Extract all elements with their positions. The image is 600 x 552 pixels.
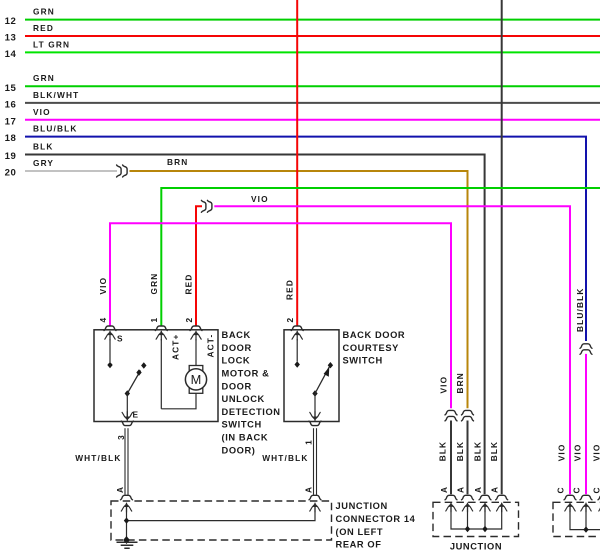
svg-text:GRN: GRN xyxy=(33,73,55,83)
svg-text:GRY: GRY xyxy=(33,158,54,168)
svg-text:JUNCTION: JUNCTION xyxy=(336,501,388,511)
svg-text:BLK/WHT: BLK/WHT xyxy=(33,90,79,100)
pin 4 xyxy=(98,317,124,362)
svg-text:(IN BACK: (IN BACK xyxy=(222,433,269,443)
svg-text:DOOR: DOOR xyxy=(222,343,252,353)
svg-text:BACK DOOR: BACK DOOR xyxy=(343,330,406,340)
pin A 1 xyxy=(439,486,457,512)
svg-text:C: C xyxy=(556,486,566,493)
svg-text:VIO: VIO xyxy=(573,444,583,462)
svg-text:14: 14 xyxy=(5,49,17,60)
ground xyxy=(117,542,138,548)
wire VIO from connector to pin C xyxy=(214,206,570,494)
svg-text:2: 2 xyxy=(285,317,295,323)
svg-text:WHT/BLK: WHT/BLK xyxy=(75,453,121,463)
pin 1 ACT+ xyxy=(149,317,181,409)
pin 3 E xyxy=(116,394,139,440)
pin C 1 xyxy=(556,486,577,512)
pin C 2 xyxy=(572,486,593,512)
inline connector RED-VIO xyxy=(201,194,268,212)
inline connector BRN-BLK xyxy=(455,372,474,421)
svg-text:BLK: BLK xyxy=(472,441,482,462)
wire WHT/BLK from pin 3 xyxy=(75,428,128,495)
svg-text:VIO: VIO xyxy=(98,277,108,295)
svg-text:MOTOR &: MOTOR & xyxy=(222,369,270,379)
svg-text:BLU/BLK: BLU/BLK xyxy=(33,124,77,134)
svg-text:BRN: BRN xyxy=(167,157,188,167)
svg-text:S: S xyxy=(117,334,124,344)
svg-text:17: 17 xyxy=(5,116,17,127)
wire BLK from top to junction xyxy=(501,0,503,494)
pin A 3 xyxy=(473,486,491,512)
wire BLK to junction pin A xyxy=(455,421,468,495)
svg-text:DOOR: DOOR xyxy=(222,381,252,391)
pin 2 xyxy=(285,317,303,368)
svg-text:BACK: BACK xyxy=(222,330,251,340)
pin A left xyxy=(115,486,133,512)
svg-text:RED: RED xyxy=(184,274,194,295)
svg-text:18: 18 xyxy=(5,133,17,144)
svg-text:20: 20 xyxy=(5,168,17,179)
wire 17 VIO xyxy=(5,107,600,128)
svg-text:12: 12 xyxy=(5,16,17,27)
svg-text:VIO: VIO xyxy=(251,194,269,204)
svg-text:SWITCH: SWITCH xyxy=(222,420,262,430)
svg-text:2: 2 xyxy=(184,317,194,323)
svg-text:E: E xyxy=(133,410,140,420)
svg-text:BLK: BLK xyxy=(438,441,448,462)
wire 18 BLU/BLK xyxy=(5,124,586,341)
svg-text:DETECTION: DETECTION xyxy=(222,407,281,417)
svg-text:RED: RED xyxy=(33,23,54,33)
svg-text:M: M xyxy=(191,372,202,387)
wire VIO to pin C xyxy=(585,354,587,494)
svg-text:4: 4 xyxy=(98,317,108,323)
svg-text:ACT+: ACT+ xyxy=(171,334,181,361)
wire 14 LT GRN xyxy=(5,39,600,60)
wire 15 GRN xyxy=(5,73,600,94)
svg-text:1: 1 xyxy=(304,439,314,445)
wire 16 BLK/WHT xyxy=(5,90,600,111)
svg-text:VIO: VIO xyxy=(592,444,600,462)
pin A 2 xyxy=(455,486,473,512)
svg-text:LT GRN: LT GRN xyxy=(33,39,70,49)
svg-text:A: A xyxy=(115,486,125,493)
svg-text:C: C xyxy=(572,486,582,493)
svg-text:LOCK: LOCK xyxy=(222,356,251,366)
svg-text:C: C xyxy=(591,486,600,493)
svg-text:COURTESY: COURTESY xyxy=(343,343,400,353)
pin 2 ACT- xyxy=(184,317,216,366)
inline connector VIO-BLK xyxy=(438,376,457,421)
wire 19 BLK xyxy=(5,142,485,495)
svg-text:A: A xyxy=(473,486,483,493)
internal bus and ground xyxy=(123,506,315,544)
svg-text:BLK: BLK xyxy=(455,441,465,462)
inline connector BLU/BLK - VIO xyxy=(575,288,592,355)
motor M1 xyxy=(161,366,206,409)
wire 12 GRN xyxy=(5,7,600,28)
svg-text:15: 15 xyxy=(5,83,17,94)
svg-text:BLU/BLK: BLU/BLK xyxy=(575,288,585,332)
wire 13 RED xyxy=(5,23,600,44)
svg-text:REAR OF: REAR OF xyxy=(336,540,382,550)
svg-text:BLK: BLK xyxy=(33,142,54,152)
internal bus xyxy=(451,507,502,532)
svg-text:13: 13 xyxy=(5,33,17,44)
pin C 3 xyxy=(591,486,600,512)
pin 1 xyxy=(304,394,321,445)
detection switch contacts xyxy=(107,362,146,397)
svg-text:DOOR): DOOR) xyxy=(222,445,256,455)
pin A 4 xyxy=(490,486,508,512)
svg-text:RED: RED xyxy=(285,279,295,300)
wire 20 GRY xyxy=(5,158,117,179)
svg-text:ACT-: ACT- xyxy=(206,334,216,358)
svg-text:A: A xyxy=(455,486,465,493)
svg-text:1: 1 xyxy=(149,317,159,323)
wire RED to courtesy switch xyxy=(285,0,298,326)
internal bus xyxy=(570,507,600,533)
svg-text:BRN: BRN xyxy=(455,372,465,393)
svg-text:BLK: BLK xyxy=(489,441,499,462)
svg-text:GRN: GRN xyxy=(149,273,159,295)
svg-text:A: A xyxy=(490,486,500,493)
svg-text:WHT/BLK: WHT/BLK xyxy=(262,453,308,463)
inline connector GRY-BRN xyxy=(117,165,128,177)
svg-text:JUNCTION: JUNCTION xyxy=(450,542,502,552)
svg-text:UNLOCK: UNLOCK xyxy=(222,394,265,404)
courtesy switch arm xyxy=(312,362,333,397)
svg-text:GRN: GRN xyxy=(33,7,55,17)
svg-text:CONNECTOR 14: CONNECTOR 14 xyxy=(336,514,416,524)
svg-text:A: A xyxy=(439,486,449,493)
pin A right xyxy=(303,486,321,512)
wire BRN from connector to junction xyxy=(130,157,468,408)
svg-text:A: A xyxy=(303,486,313,493)
wire BLK to junction pin A xyxy=(438,421,452,495)
svg-text:VIO: VIO xyxy=(33,107,51,117)
svg-text:19: 19 xyxy=(5,151,17,162)
svg-text:VIO: VIO xyxy=(438,376,448,394)
svg-text:VIO: VIO xyxy=(557,444,567,462)
wire WHT/BLK from pin 1 xyxy=(262,428,316,495)
svg-text:(ON LEFT: (ON LEFT xyxy=(336,527,384,537)
svg-text:16: 16 xyxy=(5,100,17,111)
svg-text:SWITCH: SWITCH xyxy=(343,356,383,366)
